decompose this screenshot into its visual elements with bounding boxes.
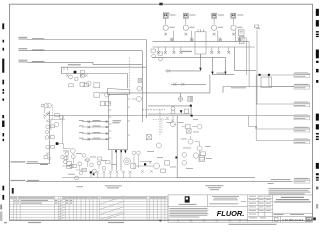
svg-text:A-52-806-23-213: A-52-806-23-213 xyxy=(282,218,304,222)
svg-text:FLUOR.: FLUOR. xyxy=(217,209,245,218)
